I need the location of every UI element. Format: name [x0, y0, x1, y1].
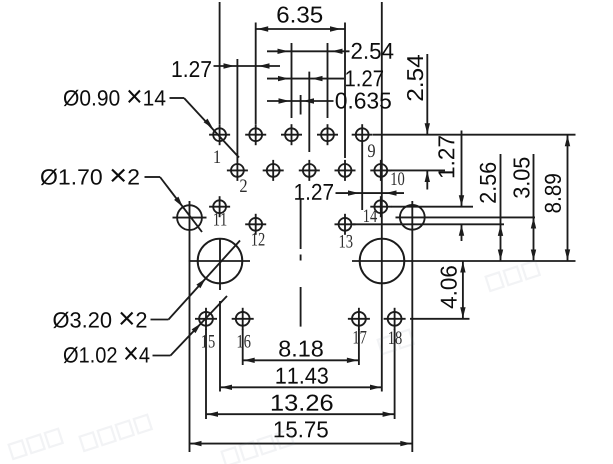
dimension 1.27 upper-left line	[214, 65, 281, 67]
extension below hole 15	[205, 329, 207, 419]
hole pin 9 (Ø0.90)	[352, 124, 373, 145]
dimension 1.27 middle arrows	[348, 190, 359, 195]
part centerline (dash-dot)	[300, 199, 302, 249]
right 1.70 hole centerline extension	[396, 216, 536, 218]
dimension 4.06 text	[441, 266, 457, 308]
pin number label 10	[392, 172, 405, 185]
label Ø1.02 x4 text	[64, 347, 150, 363]
row-2 extension line right	[388, 169, 446, 171]
dimension 3.05 arrows	[531, 218, 536, 229]
label Ø0.90 x14 text	[64, 90, 166, 106]
pin number label 1	[214, 150, 220, 163]
dimension 6.35 right arrow	[330, 26, 341, 31]
extension line pin-9 column	[361, 145, 363, 210]
leader Ø1.70 to hole	[145, 176, 161, 178]
dimension 8.18 arrows	[244, 358, 255, 363]
label Ø3.20 x2 text	[53, 312, 146, 328]
dimension 2.54 top text	[352, 43, 394, 59]
dimension 2.54 right text	[407, 55, 423, 101]
hole 16 (Ø1.02)	[232, 308, 254, 330]
leader Ø1.02 arrowhead	[192, 323, 202, 333]
dimension 1.27 upper-left text	[173, 61, 211, 77]
hole pin 6 (Ø0.90)	[299, 160, 320, 181]
hole pin 10 (Ø0.90)	[370, 160, 391, 181]
pin number label 16	[238, 335, 251, 348]
dimension 2.54 right line	[426, 54, 428, 134]
dimension 13.26 text	[272, 395, 333, 411]
dimension 2.54 top right arrow	[332, 49, 343, 54]
hole pin 1 (Ø0.90)	[209, 124, 230, 145]
right Ø1.70 hole	[400, 205, 425, 230]
dimension 6.35 line	[256, 28, 345, 30]
hole pin 12 (Ø0.90)	[245, 214, 266, 235]
extension below hole 16	[242, 329, 244, 365]
leader Ø0.90 arrowhead	[204, 119, 213, 129]
dimension 8.18 text	[279, 340, 323, 356]
dimension 1.27 right text	[438, 136, 454, 177]
extension line pin-6 column	[308, 72, 310, 152]
extension line pin-7 column	[327, 43, 329, 118]
dimension 1.27 second arrows	[278, 76, 289, 81]
hole pin 3 (Ø0.90)	[245, 124, 266, 145]
hole pin 4 (Ø0.90)	[263, 160, 284, 181]
leader Ø1.70 arrowhead	[174, 197, 183, 207]
pin number label 9	[368, 144, 375, 157]
extension line pin-1 column	[219, 2, 221, 124]
dimension 13.26 line	[206, 413, 395, 415]
pin number label 15	[202, 335, 215, 348]
holes-12/13 extension line right	[353, 223, 504, 225]
dimension 1.27 middle text	[295, 184, 333, 200]
dimension 1.27 middle line	[336, 192, 405, 194]
hole pin 8 (Ø0.90)	[335, 160, 356, 181]
dimension 13.26 arrows	[207, 412, 218, 417]
pin number label 18	[389, 331, 402, 344]
pin number label 2	[240, 179, 247, 192]
leader Ø0.90 to hole	[170, 97, 185, 99]
hole pin 2 (Ø0.90)	[227, 160, 248, 181]
dimension 8.18 line	[243, 359, 359, 361]
dimension 15.75 line	[190, 443, 413, 445]
dimension 3.05 text	[513, 158, 529, 198]
dimension 2.56 arrows	[498, 225, 503, 236]
dimension 15.75 text	[275, 421, 328, 437]
dimension 1.27 right arrows	[459, 195, 464, 206]
pin number label 11	[214, 213, 226, 226]
dimension 4.06 arrows	[460, 262, 465, 273]
dimension 8.89 line	[567, 135, 569, 261]
dimension 1.27 upper-left arrows	[224, 63, 235, 68]
row-1 extension line right	[373, 134, 576, 136]
dimension 4.06 line	[462, 261, 464, 319]
faint watermark marks	[9, 429, 63, 459]
dimension 2.54 right arrows	[425, 123, 430, 134]
dimension 11.43 arrows	[221, 385, 232, 390]
dimension 0.635 line	[267, 100, 334, 102]
extension line pin-2 column	[236, 59, 238, 160]
dimension 3.05 line	[533, 154, 535, 261]
leader Ø3.20 to big circle	[151, 319, 169, 321]
label Ø1.70 x2 text	[41, 169, 139, 185]
dimension 1.27 second text	[346, 70, 383, 86]
extension below hole 18	[394, 329, 396, 419]
dimension 11.43 text	[276, 368, 327, 384]
dimension 2.54 top left arrow	[278, 49, 289, 54]
leader Ø3.20 arrowhead	[196, 278, 205, 288]
dimension 6.35 left arrow	[257, 26, 268, 31]
dimension 15.75 arrows	[191, 441, 202, 446]
dimension 11.43 line	[220, 386, 382, 388]
dimension 0.635 arrows	[279, 98, 290, 103]
right Ø3.20 circle	[360, 239, 405, 284]
hole pin 7 (Ø0.90)	[317, 124, 338, 145]
bottom-holes extension line right	[410, 318, 470, 320]
hole 17 (Ø1.02)	[348, 308, 370, 330]
pin number label 17	[354, 331, 367, 344]
hole 15 (Ø1.02)	[195, 308, 217, 330]
extension line pin-8 column	[344, 23, 346, 159]
hole 18 (Ø1.02)	[384, 308, 406, 330]
big-circle row extension line right	[352, 260, 576, 262]
dimension 2.56 line	[500, 154, 502, 261]
left Ø3.20 circle	[198, 239, 243, 284]
hole-14 extension line right	[391, 206, 473, 208]
extension line pin-3 column	[255, 23, 257, 125]
dimension 1.27 second line	[267, 78, 344, 80]
pin number label 14	[364, 209, 377, 222]
left Ø1.70 hole	[173, 217, 207, 219]
long extension line pin-10/14/big-circle column	[381, 2, 383, 392]
pin number label 12	[252, 233, 264, 246]
dimension 1.27 right line	[461, 131, 463, 207]
extension line pin-5 column	[291, 43, 293, 118]
pin number label 13	[340, 235, 353, 248]
dimension 2.54 top line	[267, 50, 350, 52]
dimension 8.89 text	[545, 174, 561, 212]
hole pin 13 (Ø0.90)	[335, 214, 356, 235]
centerline tick at 0.635 dim	[300, 95, 302, 115]
dimension 6.35 text	[277, 6, 322, 22]
dimension 2.56 text	[480, 163, 496, 203]
hole pin 14 (Ø0.90)	[370, 196, 391, 217]
extension below right 1.70 hole	[411, 201, 413, 452]
dimension 8.89 arrows	[565, 135, 570, 146]
hole pin 5 (Ø0.90)	[281, 124, 302, 145]
hole pin 11 (Ø0.90)	[209, 196, 230, 217]
dimension 0.635 text	[336, 92, 391, 108]
extension below left big circle	[219, 301, 221, 392]
extension below hole 17	[358, 329, 360, 365]
left Ø3.20 crosshair	[189, 260, 250, 262]
leader Ø1.02 to hole 15	[153, 355, 171, 357]
extension below left 1.70 hole	[189, 201, 191, 452]
